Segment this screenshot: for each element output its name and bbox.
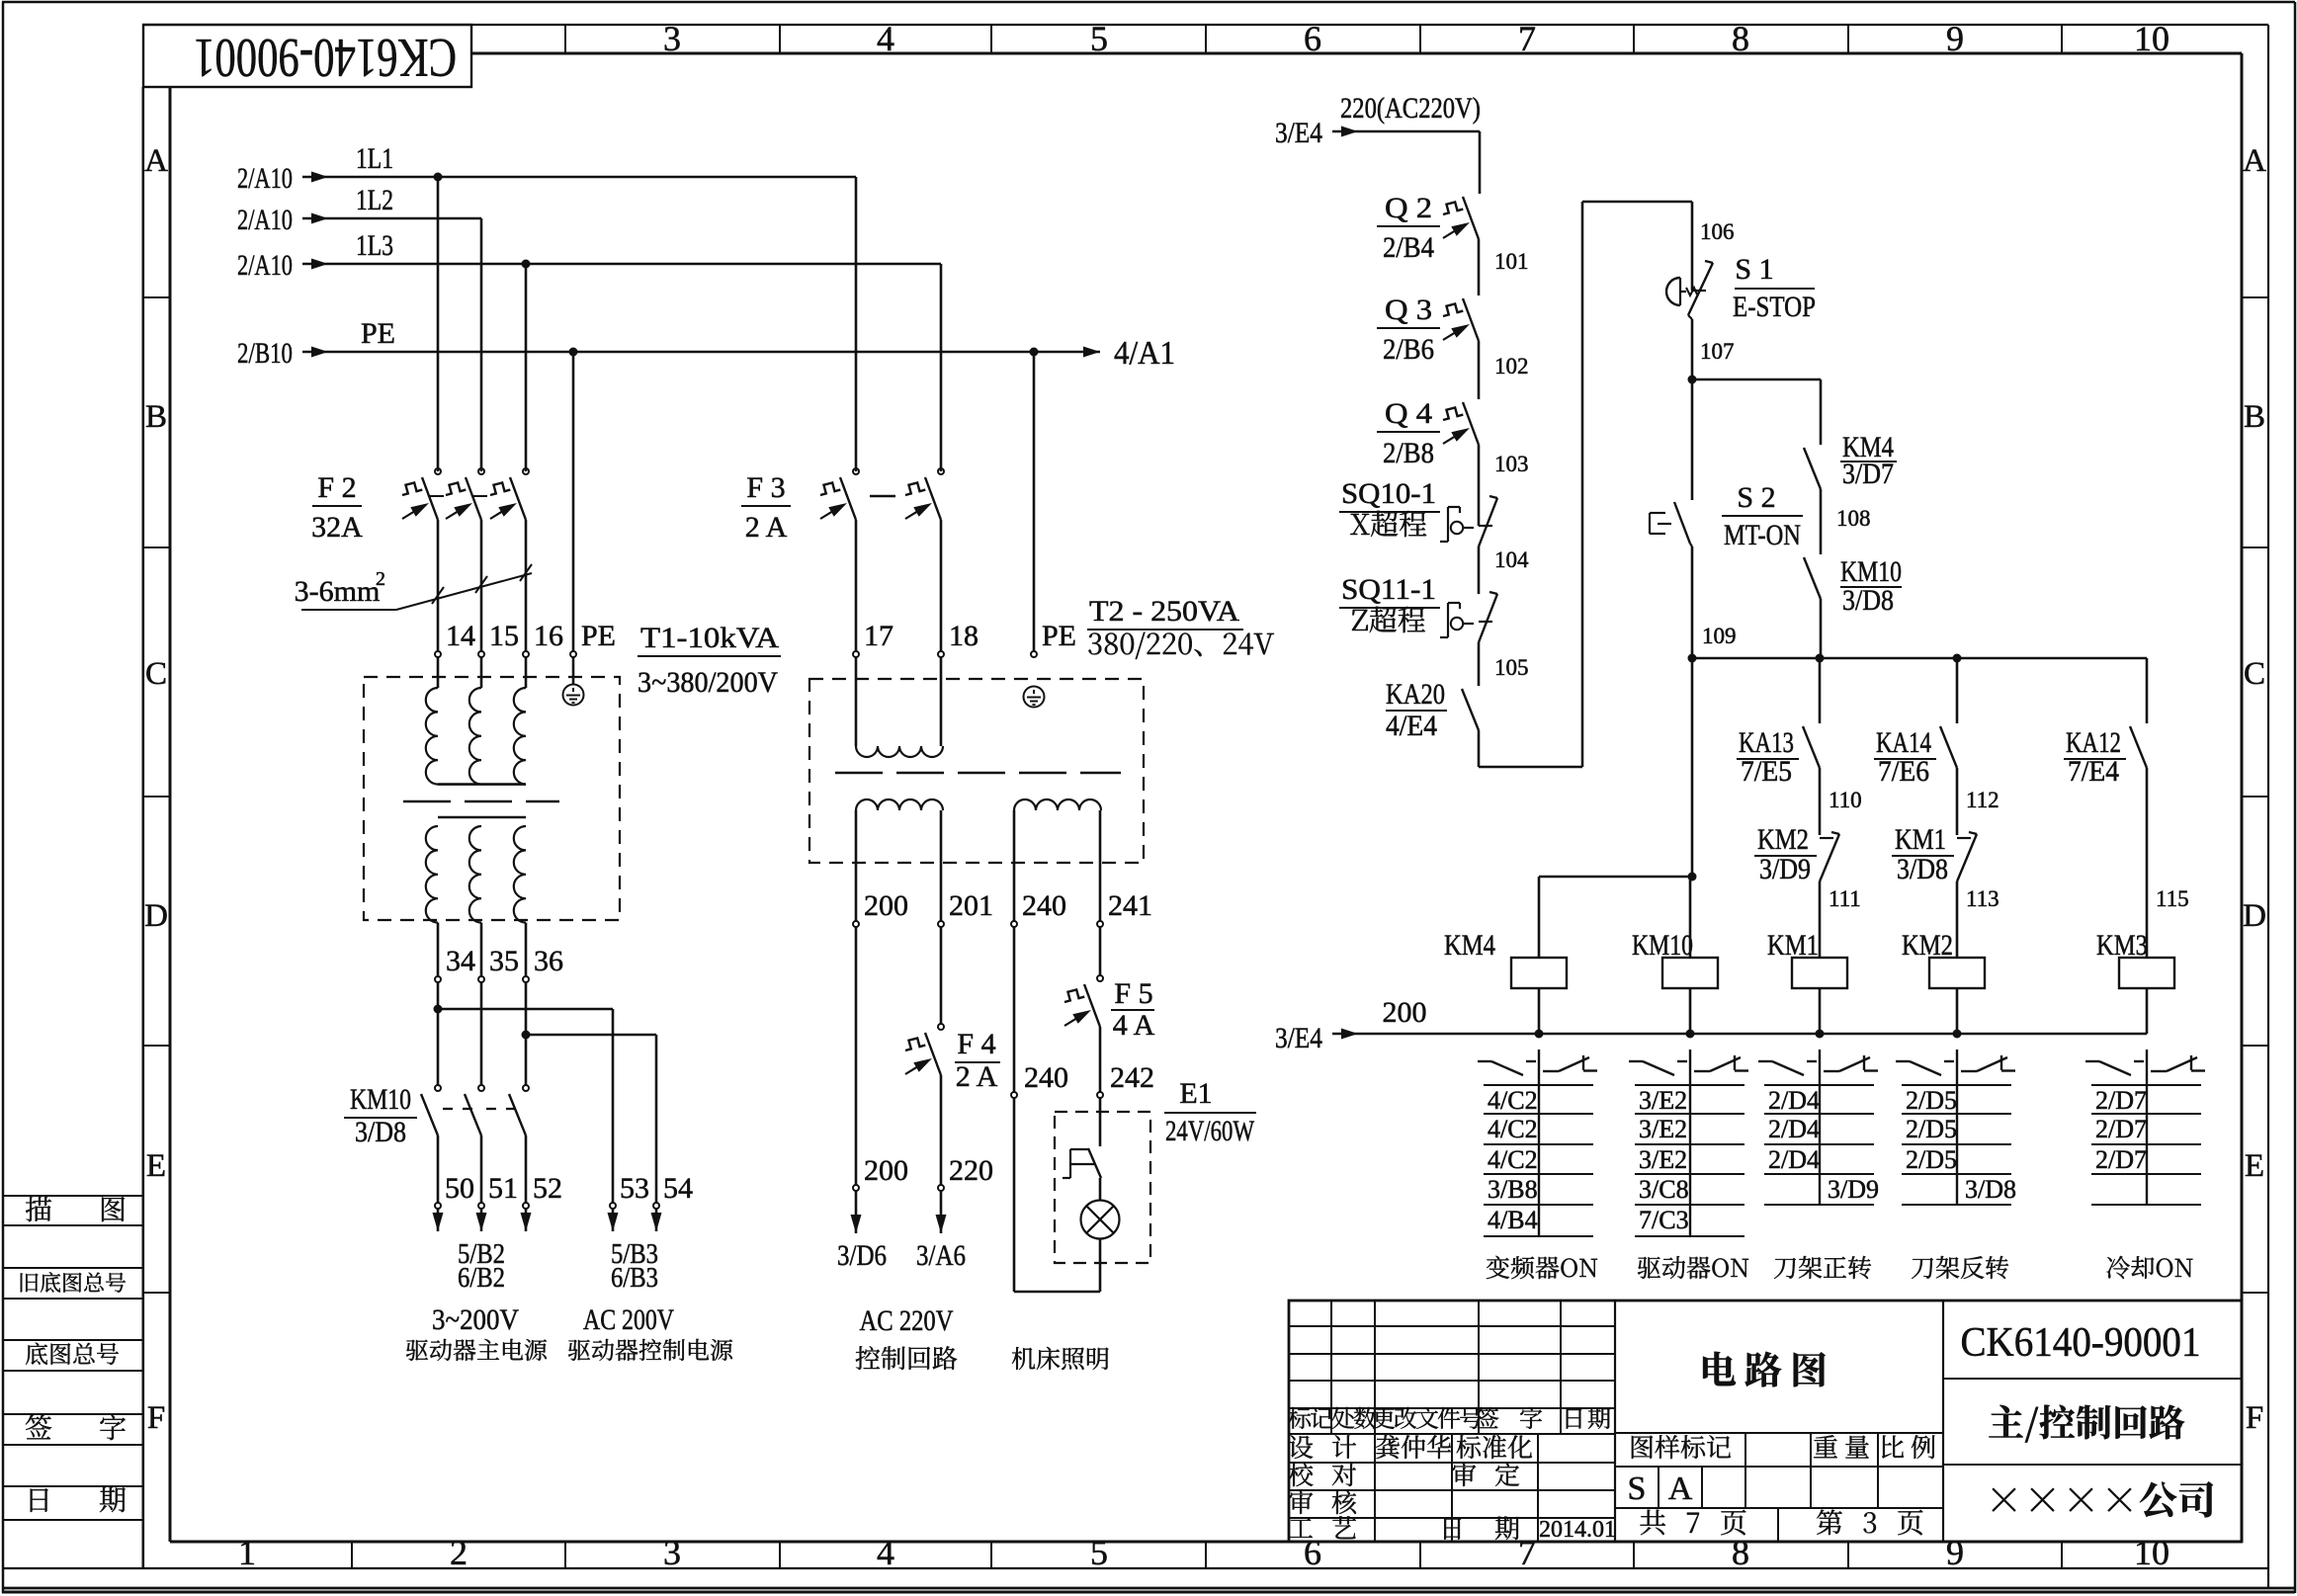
svg-text:2/A10: 2/A10 [237,204,293,236]
svg-text:10: 10 [2134,19,2169,58]
interlock contact KM1 3/D8 wire 113 [1892,823,1999,958]
svg-text:14: 14 [446,620,475,652]
aux contact table KM1 [1758,1050,1879,1205]
svg-text:6/B2: 6/B2 [458,1263,505,1294]
transformer T2 with PE ground [809,679,1144,921]
svg-text:E: E [2245,1148,2264,1184]
node PE-T2 [1030,348,1039,653]
svg-text:KM1: KM1 [1895,823,1946,856]
svg-text:2/B8: 2/B8 [1383,437,1434,469]
svg-text:7/C3: 7/C3 [1639,1206,1689,1234]
svg-text:D: D [144,898,168,934]
contactor aux KM10 3/D8 [1804,555,1902,658]
svg-text:3: 3 [663,1533,681,1572]
svg-text:SQ10-1: SQ10-1 [1341,477,1436,510]
row 共7页 第3页 [1640,1510,1922,1536]
svg-text:53: 53 [620,1172,649,1205]
svg-text:3/E2: 3/E2 [1639,1086,1687,1115]
svg-text:2/A10: 2/A10 [237,162,293,195]
svg-text:KM4: KM4 [1444,929,1495,962]
terminals 14 15 16 PE [435,620,616,688]
wire 1L2 drop [480,218,483,471]
svg-text:3/D6: 3/D6 [837,1239,887,1272]
aux contact table KM2 [1896,1050,2016,1205]
svg-text:3~200V: 3~200V [432,1303,519,1336]
row 设计 龚仲华 标准化 [1289,1435,1532,1459]
transformer T1 with PE ground [364,677,620,976]
svg-text:C: C [145,656,167,692]
wire 1L1 from 2/A10 [237,142,856,195]
svg-text:KM1: KM1 [1767,929,1819,962]
wire PE from 2/B10 to 4/A1 [237,317,1175,372]
svg-text:220: 220 [949,1154,993,1187]
svg-text:241: 241 [1108,889,1152,922]
svg-text:240: 240 [1022,889,1066,922]
terminals 50 51 52 53 54 with arrows [433,1172,694,1231]
svg-text:110: 110 [1829,788,1862,812]
contactor aux KM4 3/D7 wire 108 [1804,431,1897,554]
svg-text:7: 7 [1518,19,1536,58]
node 107 branch [1688,376,1822,446]
branch node 36 to terminal 54 [522,1031,657,1204]
svg-text:7/E5: 7/E5 [1741,755,1792,788]
svg-text:200: 200 [1383,996,1427,1029]
label 签字 [26,1415,126,1441]
svg-text:5: 5 [1090,1533,1108,1572]
svg-text:2014.01: 2014.01 [1539,1517,1616,1543]
svg-text:4/E4: 4/E4 [1386,710,1437,742]
limit switch SQ10-1 X超程 wire 104 [1339,477,1529,594]
svg-text:B: B [2244,399,2265,435]
svg-text:104: 104 [1494,547,1529,572]
svg-text:2/B4: 2/B4 [1383,231,1434,264]
wire 1L3 from 2/A10 [237,229,941,282]
svg-text:50: 50 [445,1172,474,1205]
title 主/控制回路 [1989,1405,2184,1443]
label AC 200V 驱动器控制电源 [568,1303,732,1361]
svg-text:8: 8 [1732,19,1749,58]
lamp E1 [1081,1178,1120,1292]
svg-text:2 A: 2 A [745,511,788,544]
svg-text:15: 15 [489,620,519,652]
svg-text:106: 106 [1700,219,1735,244]
svg-text:2/D7: 2/D7 [2095,1145,2147,1174]
svg-text:3/E2: 3/E2 [1639,1115,1687,1143]
svg-text:3/E4: 3/E4 [1275,117,1322,149]
label 日期 [31,1487,126,1512]
label E1 24V/60W [1164,1077,1256,1147]
node PE-T1 [569,348,578,653]
svg-text:E-STOP: E-STOP [1733,291,1816,323]
svg-text:AC 220V: AC 220V [860,1304,954,1337]
svg-text:3/D8: 3/D8 [1965,1175,2016,1204]
title 电路图 [1703,1352,1826,1387]
limit switch SQ11-1 Z超程 wire 105 [1339,573,1529,686]
fuse breaker F5 4A wire 242 [1063,927,1155,1146]
svg-text:CK6140-90001: CK6140-90001 [1961,1320,2201,1366]
wire 240 lamp return [1011,927,1100,1292]
svg-text:200: 200 [864,889,908,922]
svg-text:F: F [2246,1400,2263,1436]
svg-text:9: 9 [1946,19,1964,58]
svg-text:3: 3 [663,19,681,58]
lamp switch [1063,1148,1101,1178]
svg-text:101: 101 [1494,249,1529,274]
svg-text:113: 113 [1966,886,1999,911]
svg-text:242: 242 [1110,1061,1154,1094]
svg-text:2/D4: 2/D4 [1768,1115,1820,1143]
svg-text:F 5: F 5 [1114,977,1152,1010]
svg-text:4/A1: 4/A1 [1114,335,1175,372]
svg-text:8: 8 [1732,1533,1749,1572]
svg-text:4/C2: 4/C2 [1488,1115,1538,1143]
svg-text:103: 103 [1494,452,1529,476]
node 1L1-F2 [434,173,443,472]
svg-text:107: 107 [1700,339,1735,364]
label 旧底图总号 [21,1272,126,1293]
fuse breaker F4 2A wire 220 to 3/A6 [903,927,1000,1272]
svg-text:7: 7 [1518,1533,1536,1572]
svg-text:S: S [1628,1470,1647,1507]
svg-text:6: 6 [1304,1533,1321,1572]
bottom reference band numbers 1-10 [238,1533,2169,1572]
svg-text:4: 4 [877,1533,894,1572]
label AC 220V 控制回路 [856,1304,958,1370]
svg-text:T1-10kVA: T1-10kVA [640,622,779,654]
wire 200 to 3/D6 [837,927,908,1272]
svg-text:201: 201 [949,889,993,922]
svg-text:2/D4: 2/D4 [1768,1086,1820,1115]
left margin column boxes [3,87,143,1568]
svg-text:E1: E1 [1179,1077,1212,1110]
svg-text:240: 240 [1024,1061,1068,1094]
circuit breaker F3 2A [741,468,944,652]
wire to KM10 coil [1689,877,1692,958]
contactor coil KM4 [1444,929,1567,1034]
doc number CK6140-90001 [1961,1320,2201,1366]
svg-text:MT-ON: MT-ON [1724,519,1801,551]
svg-text:2/B6: 2/B6 [1383,333,1434,366]
company ××××公司 [1993,1481,2214,1517]
terminals 17 18 PE [853,620,1076,746]
label T2-250VA 380/220、24V [1087,595,1274,659]
svg-text:B: B [145,399,167,435]
svg-text:115: 115 [2156,886,2189,911]
revision header 标记 处数 更改文件号 签字 日期 [1289,1407,1611,1429]
svg-text:3/E2: 3/E2 [1639,1145,1687,1174]
svg-text:9: 9 [1946,1533,1964,1572]
svg-text:35: 35 [489,945,519,977]
svg-text:18: 18 [949,620,978,652]
svg-text:200: 200 [864,1154,908,1187]
svg-text:3/D9: 3/D9 [1759,853,1811,885]
terminals 200 201 240 241 [853,889,1152,927]
svg-text:4 A: 4 A [1113,1009,1155,1042]
svg-text:32A: 32A [311,511,363,544]
svg-text:CK6140-90001: CK6140-90001 [194,27,457,88]
node 1L3-F2 [522,260,531,472]
svg-text:2/A10: 2/A10 [237,249,293,282]
row 工艺 日期 2014.01 [1289,1516,1616,1543]
svg-text:C: C [2244,656,2265,692]
relay contact KA13 7/E5 wire 110 [1737,658,1862,835]
machine lamp dashed enclosure [1055,1112,1150,1263]
rail 200 3/E4 [1275,996,2147,1054]
svg-text:52: 52 [533,1172,562,1205]
svg-text:E: E [146,1148,166,1184]
svg-text:6/B3: 6/B3 [611,1263,658,1294]
svg-text:5: 5 [1090,19,1108,58]
wire 220 feed 3/E4 [1275,92,1481,194]
cross refs 5/B2 6/B2 5/B3 6/B3 [458,1239,658,1294]
svg-text:Q 3: Q 3 [1385,294,1432,326]
relay contact KA14 7/E6 wire 112 [1874,658,1999,835]
svg-text:3/D7: 3/D7 [1842,458,1894,490]
svg-text:7/E4: 7/E4 [2068,755,2119,788]
svg-text:KM2: KM2 [1902,929,1953,962]
label 机床照明 [1012,1347,1109,1370]
cells S A [1628,1470,1693,1507]
svg-text:A: A [144,143,168,179]
svg-text:F 2: F 2 [317,471,356,504]
label 变频器ON [1487,1256,1597,1279]
wire 1L2 from 2/A10 [237,184,481,236]
interlock contact KM2 3/D9 wire 111 [1754,823,1861,958]
svg-text:KM3: KM3 [2096,929,2148,962]
breaker aux contact Q3 2/B6 wire 102 [1377,294,1529,399]
svg-text:Q 2: Q 2 [1385,192,1432,224]
svg-text:3-6mm: 3-6mm [295,575,381,608]
label T1-10kVA 3~380/200V [638,622,781,699]
svg-text:3/D9: 3/D9 [1828,1175,1879,1204]
circuit breaker F2 32A [311,468,529,652]
breaker aux contact Q4 2/B8 wire 103 [1377,397,1529,526]
svg-text:2/D5: 2/D5 [1906,1086,1957,1115]
svg-text:PE: PE [361,317,395,350]
svg-text:2/D7: 2/D7 [2095,1086,2147,1115]
svg-text:1L2: 1L2 [356,184,393,216]
title block grid [1289,1301,2242,1542]
label 描图 [26,1197,125,1222]
svg-text:3/E4: 3/E4 [1275,1022,1322,1054]
svg-text:KM2: KM2 [1757,823,1809,856]
left row letters A-F [143,87,170,1568]
start button S2 MT-ON wire 109 [1650,379,1803,658]
aux contact table KM3 [2085,1050,2205,1205]
svg-text:16: 16 [534,620,563,652]
top reference band numbers 3-10 [565,19,2169,58]
label 刀架正转 [1774,1256,1871,1279]
svg-text:3~380/200V: 3~380/200V [638,666,778,699]
svg-text:220(AC220V): 220(AC220V) [1340,92,1481,125]
branch node 34 to terminal 53 [434,1005,614,1204]
row 审核 [1289,1490,1356,1514]
label 驱动器ON [1638,1256,1748,1279]
contactor coil KM10 [1632,929,1718,1034]
wire 106 riser [1479,202,1735,767]
svg-text:4/C2: 4/C2 [1488,1086,1538,1115]
svg-text:2/D7: 2/D7 [2095,1115,2147,1143]
relay contact KA20 4/E4 [1386,678,1479,742]
row 校对 审定 [1289,1463,1520,1486]
svg-text:F 4: F 4 [957,1028,995,1060]
svg-text:1L3: 1L3 [356,229,393,262]
emergency stop S1 E-STOP wire 107 [1666,253,1816,379]
svg-text:102: 102 [1494,354,1529,378]
relay contact KA12 7/E4 wire 115 [2064,658,2189,958]
aux contact table KM4 [1478,1050,1597,1236]
svg-text:KA20: KA20 [1386,678,1445,711]
svg-text:3/D8: 3/D8 [1842,584,1894,617]
aux contact table KM10 [1629,1050,1748,1236]
svg-text:4: 4 [877,19,894,58]
svg-text:4/C2: 4/C2 [1488,1145,1538,1174]
svg-text:Q 4: Q 4 [1385,397,1432,430]
svg-text:4/B4: 4/B4 [1488,1206,1538,1234]
svg-text:2/B10: 2/B10 [237,337,293,370]
svg-text:3/C8: 3/C8 [1639,1175,1689,1204]
label 底图总号 [26,1343,119,1365]
svg-text:T2 - 250VA: T2 - 250VA [1089,595,1239,628]
svg-text:24V/60W: 24V/60W [1165,1115,1255,1147]
breaker aux contact Q2 2/B4 wire 101 [1377,192,1529,295]
svg-text:3/D8: 3/D8 [1897,853,1948,885]
svg-text:105: 105 [1494,655,1529,680]
contactor KM10 main contacts 3/D8 [344,1083,529,1204]
svg-text:A: A [1668,1470,1693,1507]
svg-text:2/D5: 2/D5 [1906,1145,1957,1174]
svg-text:3/A6: 3/A6 [916,1239,966,1272]
svg-text:54: 54 [663,1172,693,1205]
svg-text:2/D4: 2/D4 [1768,1145,1820,1174]
svg-text:1: 1 [238,1533,256,1572]
svg-text:10: 10 [2134,1533,2169,1572]
svg-text:7/E6: 7/E6 [1878,755,1929,788]
svg-text:3/B8: 3/B8 [1488,1175,1538,1204]
svg-text:F 3: F 3 [746,471,785,504]
label 刀架反转 [1912,1256,2008,1279]
svg-text:AC 200V: AC 200V [583,1303,674,1336]
wire 1L1 to F3 [855,177,858,471]
contactor coil KM2 [1902,929,1985,1034]
svg-text:6: 6 [1304,19,1321,58]
label 冷却ON [2107,1256,2193,1279]
label 3~200V 驱动器主电源 [406,1303,547,1361]
svg-text:PE: PE [581,620,616,652]
right row letters A-F [2242,143,2268,1436]
wire to KM4 coil [1539,658,1697,958]
svg-text:2/D5: 2/D5 [1906,1115,1957,1143]
svg-text:A: A [2243,143,2266,179]
svg-text:F: F [147,1400,165,1436]
node 109 rail [1688,654,2148,663]
svg-text:2: 2 [450,1533,468,1572]
svg-text:111: 111 [1829,886,1861,911]
svg-text:S 1: S 1 [1735,253,1773,286]
svg-text:1L1: 1L1 [356,142,393,175]
row 图样标记 重量 比例 [1632,1435,1935,1459]
svg-text:D: D [2243,898,2266,934]
svg-text:PE: PE [1042,620,1076,652]
svg-text:KM10: KM10 [1632,929,1693,962]
svg-text:109: 109 [1702,624,1737,648]
terminals 34 35 36 [435,945,563,1085]
svg-text:KM10: KM10 [350,1083,411,1116]
contactor coil KM1 [1767,929,1847,1034]
svg-text:3/D8: 3/D8 [355,1116,406,1148]
svg-text:36: 36 [534,945,563,977]
contactor coil KM3 [2096,929,2174,1034]
svg-text:S 2: S 2 [1737,481,1775,514]
cable mark 3-6mm2 [295,564,532,610]
wire 1L3 to F3 [940,264,943,471]
svg-text:2 A: 2 A [956,1060,998,1093]
svg-text:SQ11-1: SQ11-1 [1341,573,1436,606]
svg-text:112: 112 [1966,788,1999,812]
svg-text:34: 34 [446,945,475,977]
svg-text:51: 51 [488,1172,518,1205]
rotated sheet number box CK6140-90001 [143,25,471,88]
svg-text:2: 2 [376,568,385,590]
svg-text:108: 108 [1836,506,1871,531]
svg-text:17: 17 [864,620,893,652]
